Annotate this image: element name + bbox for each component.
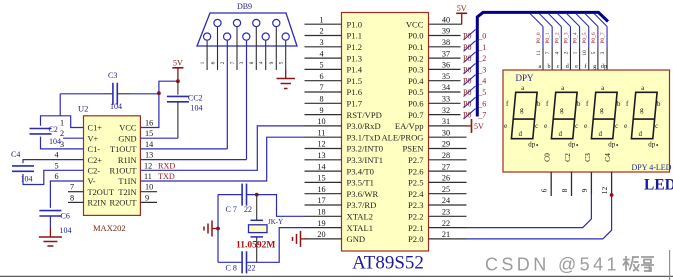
svg-text:11: 11 bbox=[144, 172, 152, 181]
svg-text:12: 12 bbox=[144, 161, 152, 170]
svg-text:d: d bbox=[558, 131, 562, 138]
svg-text:6: 6 bbox=[540, 188, 549, 192]
svg-text:30: 30 bbox=[442, 128, 450, 137]
svg-text:13: 13 bbox=[317, 151, 325, 160]
svg-text:9: 9 bbox=[145, 193, 149, 202]
svg-text:27: 27 bbox=[442, 162, 450, 171]
svg-text:P1.6: P1.6 bbox=[347, 87, 363, 97]
svg-text:e: e bbox=[544, 123, 547, 130]
svg-text:P1.7: P1.7 bbox=[347, 99, 363, 109]
svg-text:dp: dp bbox=[528, 142, 535, 149]
svg-text:g: g bbox=[600, 107, 604, 114]
svg-text:g: g bbox=[520, 107, 524, 114]
svg-text:8: 8 bbox=[560, 188, 569, 192]
svg-text:5V: 5V bbox=[457, 4, 467, 13]
svg-text:C3: C3 bbox=[108, 71, 117, 80]
svg-text:dp: dp bbox=[608, 142, 615, 149]
svg-text:R2OUT: R2OUT bbox=[110, 199, 137, 208]
svg-text:37: 37 bbox=[442, 49, 450, 58]
svg-text:P1.1: P1.1 bbox=[347, 31, 363, 41]
svg-text:3: 3 bbox=[319, 38, 323, 47]
svg-text:P0_3: P0_3 bbox=[563, 32, 569, 44]
svg-text:8: 8 bbox=[249, 61, 255, 64]
svg-text:28: 28 bbox=[442, 151, 450, 160]
svg-text:d: d bbox=[598, 131, 602, 138]
svg-text:34: 34 bbox=[442, 83, 450, 92]
svg-text:104: 104 bbox=[110, 102, 122, 111]
svg-text:13: 13 bbox=[145, 151, 153, 160]
svg-text:2: 2 bbox=[220, 61, 226, 64]
svg-text:b: b bbox=[617, 101, 621, 108]
svg-text:26: 26 bbox=[442, 174, 450, 183]
svg-text:C4: C4 bbox=[603, 153, 612, 162]
svg-text:17: 17 bbox=[317, 196, 325, 205]
svg-text:3: 3 bbox=[239, 61, 245, 64]
svg-text:XTAL2: XTAL2 bbox=[347, 212, 374, 222]
svg-text:P1.5: P1.5 bbox=[347, 76, 363, 86]
svg-text:24: 24 bbox=[442, 196, 450, 205]
svg-text:P3.6/WR: P3.6/WR bbox=[347, 189, 379, 199]
svg-text:15: 15 bbox=[317, 174, 325, 183]
svg-text:P2.5: P2.5 bbox=[408, 178, 424, 188]
svg-text:22: 22 bbox=[248, 264, 256, 273]
svg-text:7: 7 bbox=[319, 83, 323, 92]
svg-text:39: 39 bbox=[442, 27, 450, 36]
svg-text:LED: LED bbox=[644, 177, 673, 194]
svg-text:23: 23 bbox=[442, 208, 450, 217]
svg-text:8: 8 bbox=[319, 95, 323, 104]
svg-text:1: 1 bbox=[200, 61, 206, 64]
svg-text:4: 4 bbox=[554, 51, 560, 54]
svg-text:22: 22 bbox=[442, 219, 450, 228]
svg-text:R1IN: R1IN bbox=[118, 156, 137, 165]
svg-text:EA/Vpp: EA/Vpp bbox=[395, 121, 424, 131]
svg-text:16: 16 bbox=[145, 119, 153, 128]
svg-text:14: 14 bbox=[145, 140, 153, 149]
svg-text:P3.1/TxD: P3.1/TxD bbox=[347, 132, 381, 142]
svg-text:P3.0/RxD: P3.0/RxD bbox=[347, 121, 381, 131]
svg-text:32: 32 bbox=[442, 106, 450, 115]
svg-text:e: e bbox=[624, 123, 627, 130]
svg-text:e: e bbox=[504, 123, 507, 130]
svg-text:P2.0: P2.0 bbox=[408, 234, 424, 244]
svg-text:36: 36 bbox=[442, 61, 450, 70]
svg-text:g: g bbox=[593, 64, 596, 70]
svg-text:dp: dp bbox=[601, 64, 607, 70]
svg-text:g: g bbox=[640, 107, 644, 114]
svg-text:g: g bbox=[560, 107, 564, 114]
svg-text:P0.4: P0.4 bbox=[408, 76, 424, 86]
svg-text:GND: GND bbox=[347, 234, 366, 244]
svg-text:V+: V+ bbox=[88, 134, 99, 143]
svg-text:MAX202: MAX202 bbox=[93, 223, 126, 233]
svg-text:104: 104 bbox=[49, 137, 61, 146]
svg-text:6: 6 bbox=[210, 61, 216, 64]
svg-text:P0_4: P0_4 bbox=[573, 32, 579, 44]
svg-text:c: c bbox=[615, 123, 618, 130]
svg-text:f: f bbox=[585, 63, 587, 70]
svg-text:9: 9 bbox=[269, 61, 275, 64]
svg-text:19: 19 bbox=[317, 219, 325, 228]
svg-text:18: 18 bbox=[317, 208, 325, 217]
svg-text:P2.1: P2.1 bbox=[408, 223, 424, 233]
svg-text:b: b bbox=[537, 101, 541, 108]
svg-text:T2IN: T2IN bbox=[118, 188, 136, 197]
svg-text:4: 4 bbox=[54, 151, 58, 160]
svg-text:P0_2: P0_2 bbox=[554, 32, 560, 44]
svg-text:P2.7: P2.7 bbox=[408, 155, 424, 165]
svg-text:e: e bbox=[575, 64, 578, 70]
svg-text:7: 7 bbox=[230, 61, 236, 64]
svg-text:P0_5: P0_5 bbox=[582, 32, 588, 44]
svg-text:38: 38 bbox=[442, 38, 450, 47]
svg-text:40: 40 bbox=[442, 15, 450, 24]
svg-text:VCC: VCC bbox=[406, 19, 424, 29]
svg-text:P0_7: P0_7 bbox=[600, 32, 606, 44]
svg-text:b: b bbox=[577, 101, 581, 108]
svg-text:P3.2/INT0: P3.2/INT0 bbox=[347, 144, 384, 154]
svg-text:DPY: DPY bbox=[516, 73, 535, 83]
svg-text:TXD: TXD bbox=[158, 172, 175, 181]
svg-text:e: e bbox=[584, 123, 587, 130]
svg-text:C4: C4 bbox=[11, 150, 20, 159]
svg-text:P3.5/T1: P3.5/T1 bbox=[347, 178, 374, 188]
svg-text:P3.7/RD: P3.7/RD bbox=[347, 200, 377, 210]
svg-text:c: c bbox=[575, 123, 578, 130]
svg-text:29: 29 bbox=[442, 140, 450, 149]
svg-text:11.0592M: 11.0592M bbox=[236, 241, 275, 251]
svg-text:DPY 4-LED: DPY 4-LED bbox=[632, 163, 672, 172]
svg-text:C0: C0 bbox=[543, 153, 552, 162]
svg-text:a: a bbox=[601, 85, 604, 92]
svg-text:C3: C3 bbox=[583, 153, 592, 162]
svg-text:5V: 5V bbox=[173, 59, 183, 68]
svg-text:11: 11 bbox=[318, 128, 326, 137]
svg-text:C 7: C 7 bbox=[226, 205, 237, 214]
svg-text:PSEN: PSEN bbox=[402, 144, 424, 154]
svg-text:12: 12 bbox=[600, 187, 609, 195]
svg-text:7: 7 bbox=[545, 51, 551, 54]
svg-text:14: 14 bbox=[317, 162, 325, 171]
svg-text:16: 16 bbox=[317, 185, 325, 194]
svg-text:ALE/PROG: ALE/PROG bbox=[381, 132, 423, 142]
svg-text:35: 35 bbox=[442, 72, 450, 81]
svg-text:1: 1 bbox=[319, 15, 323, 24]
svg-text:P2.3: P2.3 bbox=[408, 200, 424, 210]
svg-text:P0_1: P0_1 bbox=[545, 32, 551, 44]
svg-text:a: a bbox=[641, 85, 644, 92]
svg-text:5: 5 bbox=[279, 61, 285, 64]
svg-text:104: 104 bbox=[191, 103, 203, 112]
svg-text:15: 15 bbox=[145, 129, 153, 138]
svg-text:3: 3 bbox=[600, 51, 606, 54]
svg-text:JK-Y: JK-Y bbox=[268, 218, 283, 226]
svg-text:d: d bbox=[566, 64, 569, 70]
svg-text:33: 33 bbox=[442, 95, 450, 104]
svg-text:c: c bbox=[557, 64, 560, 70]
svg-text:RST/VPD: RST/VPD bbox=[347, 110, 382, 120]
svg-text:b: b bbox=[547, 64, 550, 70]
svg-text:4: 4 bbox=[259, 61, 265, 64]
svg-text:P1.2: P1.2 bbox=[347, 42, 363, 52]
svg-text:P2.6: P2.6 bbox=[408, 166, 424, 176]
svg-text:P0.3: P0.3 bbox=[408, 65, 424, 75]
svg-text:U2: U2 bbox=[78, 104, 88, 114]
svg-text:R2IN: R2IN bbox=[88, 199, 107, 208]
svg-text:1: 1 bbox=[573, 51, 579, 54]
svg-text:dp: dp bbox=[648, 142, 655, 149]
svg-text:11: 11 bbox=[536, 50, 542, 56]
svg-text:T2OUT: T2OUT bbox=[88, 188, 115, 197]
svg-text:10: 10 bbox=[145, 183, 153, 192]
svg-text:P0_6: P0_6 bbox=[591, 32, 597, 44]
svg-text:VCC: VCC bbox=[119, 124, 137, 133]
svg-text:dp: dp bbox=[568, 142, 575, 149]
svg-text:10: 10 bbox=[582, 50, 588, 56]
svg-text:P2.2: P2.2 bbox=[408, 212, 424, 222]
svg-text:5V: 5V bbox=[474, 122, 484, 131]
svg-text:C2: C2 bbox=[563, 153, 572, 162]
svg-text:5: 5 bbox=[591, 51, 597, 54]
svg-text:RXD: RXD bbox=[158, 161, 175, 170]
svg-text:104: 104 bbox=[60, 226, 72, 235]
svg-text:P0.0: P0.0 bbox=[408, 31, 424, 41]
svg-text:10: 10 bbox=[317, 117, 325, 126]
svg-text:c: c bbox=[655, 123, 658, 130]
svg-text:5: 5 bbox=[319, 61, 323, 70]
svg-text:C6: C6 bbox=[61, 212, 70, 221]
svg-text:C1-: C1- bbox=[88, 145, 101, 154]
svg-text:P1.4: P1.4 bbox=[347, 65, 363, 75]
svg-text:6: 6 bbox=[54, 172, 58, 181]
svg-text:5: 5 bbox=[54, 161, 58, 170]
svg-text:V-: V- bbox=[88, 177, 96, 186]
svg-text:GND: GND bbox=[118, 134, 136, 143]
svg-text:P0.1: P0.1 bbox=[408, 42, 424, 52]
svg-text:P0.2: P0.2 bbox=[408, 53, 424, 63]
svg-text:d: d bbox=[518, 131, 522, 138]
svg-text:R1OUT: R1OUT bbox=[110, 167, 137, 176]
svg-text:XTAL1: XTAL1 bbox=[347, 223, 374, 233]
svg-text:6: 6 bbox=[319, 72, 323, 81]
svg-text:a: a bbox=[538, 64, 541, 70]
svg-text:a: a bbox=[561, 85, 564, 92]
svg-text:AT89S52: AT89S52 bbox=[352, 253, 424, 274]
svg-text:DB9: DB9 bbox=[237, 2, 252, 11]
svg-text:31: 31 bbox=[442, 117, 450, 126]
svg-text:1: 1 bbox=[60, 119, 64, 128]
svg-text:21: 21 bbox=[442, 230, 450, 239]
svg-text:P3.4/T0: P3.4/T0 bbox=[347, 166, 374, 176]
svg-text:C2: C2 bbox=[49, 125, 58, 134]
svg-text:T1OUT: T1OUT bbox=[110, 145, 137, 154]
svg-text:CSDN @541: CSDN @541 bbox=[485, 255, 620, 275]
svg-text:P0_0: P0_0 bbox=[536, 32, 542, 44]
svg-text:C2+: C2+ bbox=[88, 156, 103, 165]
svg-text:P0.6: P0.6 bbox=[408, 99, 424, 109]
svg-text:C 8: C 8 bbox=[226, 264, 237, 273]
svg-text:P3.3/INT1: P3.3/INT1 bbox=[347, 155, 384, 165]
svg-text:C2-: C2- bbox=[88, 167, 101, 176]
svg-text:8: 8 bbox=[70, 193, 74, 202]
svg-text:12: 12 bbox=[317, 140, 325, 149]
svg-text:20: 20 bbox=[317, 230, 325, 239]
svg-text:d: d bbox=[638, 131, 642, 138]
svg-text:2: 2 bbox=[563, 51, 569, 54]
svg-text:P1.3: P1.3 bbox=[347, 53, 363, 63]
svg-text:7: 7 bbox=[70, 183, 74, 192]
svg-text:c: c bbox=[535, 123, 538, 130]
svg-text:9: 9 bbox=[319, 106, 323, 115]
svg-text:P2.4: P2.4 bbox=[408, 189, 424, 199]
svg-text:C1+: C1+ bbox=[88, 124, 103, 133]
svg-text:104: 104 bbox=[21, 175, 33, 184]
svg-text:CC2: CC2 bbox=[188, 93, 203, 102]
svg-text:P1.0: P1.0 bbox=[347, 19, 363, 29]
svg-text:P0.5: P0.5 bbox=[408, 87, 424, 97]
svg-text:4: 4 bbox=[319, 49, 323, 58]
svg-text:25: 25 bbox=[442, 185, 450, 194]
svg-text:a: a bbox=[521, 85, 524, 92]
svg-text:b: b bbox=[657, 101, 661, 108]
svg-text:T1IN: T1IN bbox=[118, 177, 136, 186]
svg-text:9: 9 bbox=[580, 188, 589, 192]
svg-text:22: 22 bbox=[244, 205, 252, 214]
svg-text:2: 2 bbox=[319, 27, 323, 36]
svg-text:P0.7: P0.7 bbox=[408, 110, 424, 120]
